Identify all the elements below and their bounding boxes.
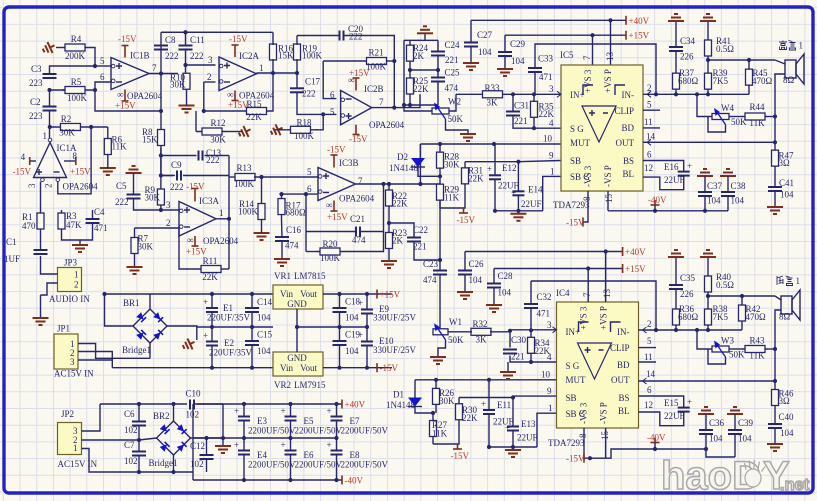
svg-text:VR2: VR2 [274,380,291,390]
svg-text:50K: 50K [729,350,745,360]
svg-text:104: 104 [780,428,794,438]
wire C18 top [339,294,341,308]
wire gnd to C38 [727,176,729,192]
svg-text:12: 12 [644,400,653,410]
wire BR1 top [149,294,151,309]
svg-text:S G: S G [566,361,580,371]
svg-text:2K: 2K [413,51,425,61]
svg-text:+40V: +40V [629,16,650,26]
svg-text:E3: E3 [257,416,267,426]
wire C35 to R36 [675,289,677,304]
resistor R24 [407,40,429,66]
svg-text:8: 8 [578,433,588,438]
svg-text:SB: SB [570,156,581,166]
svg-text:IC2B: IC2B [364,84,384,94]
junction [304,192,308,196]
resistor R15 [246,99,266,122]
svg-text:222: 222 [115,197,129,207]
svg-text:30K: 30K [439,396,455,406]
svg-text:2K: 2K [392,236,404,246]
svg-text:9: 9 [549,151,554,161]
wire VR2 out [323,367,392,369]
junction [706,92,710,96]
wire W2 wiper to ground [446,119,469,134]
wire -40V stem IC4 [654,443,656,450]
svg-text:2: 2 [647,319,652,329]
wire R5 to IC1B - [88,82,111,90]
ground above C34 [668,14,684,26]
wire R6 to ground [107,166,109,168]
capacitor C38 [721,181,746,206]
power flag -15V (IC4 standby) [451,444,470,461]
pin 3 IC3A [166,200,171,210]
capacitor C34 [669,36,696,62]
junction [436,68,440,72]
ground big mid [460,134,476,141]
svg-text:R5: R5 [71,77,82,87]
resistor R10 [170,73,190,90]
svg-text:+: + [358,298,363,308]
wire to R8 [160,111,162,127]
pin 6 IC2B [330,90,335,100]
svg-text:C41: C41 [779,178,794,188]
svg-text:14: 14 [646,369,656,379]
svg-text:22K: 22K [392,199,408,209]
junction [532,92,536,96]
junction [227,217,231,221]
pin 10 IC4 [541,370,551,380]
wire R3 to ground [62,232,81,245]
wire C7 bottom [138,456,140,473]
svg-text:+15V: +15V [380,290,401,300]
svg-text:AUDIO IN: AUDIO IN [49,294,90,304]
IC IC4 TDA7293 [557,302,639,428]
svg-text:100K: 100K [320,253,341,263]
wire to speaker + bottom [775,296,781,300]
svg-text:6: 6 [100,72,105,82]
wire W1 to R32 [448,331,472,333]
svg-text:22UF: 22UF [521,199,542,209]
wire C12 bottom [206,459,208,472]
svg-text:330UF/25V: 330UF/25V [373,345,417,355]
wire join pins [590,457,606,459]
wire -rail to VR2 [112,367,273,369]
capacitor C13 [199,148,222,165]
svg-text:C27: C27 [477,30,493,40]
wire C29 top [504,35,506,52]
svg-text:1: 1 [550,167,555,177]
wire C33 bottom [534,72,536,94]
power flag -40V bank [342,476,363,486]
minus sign IC2A [224,81,230,83]
wire to C17 [296,73,298,88]
svg-text:TDA7293: TDA7293 [548,438,585,448]
svg-text:E7: E7 [350,416,360,426]
connector JP2 [58,409,98,469]
pin 5 IC2B [330,107,335,117]
ground above C38 [720,169,736,176]
pin 2 IC2A [207,72,212,82]
capacitor C25 [431,68,460,94]
svg-text:R33: R33 [484,83,500,93]
potentiometer W3 [712,336,745,360]
svg-text:3Ω: 3Ω [779,158,791,168]
wire C12 top [206,438,208,455]
plus sign IC1B [116,63,122,69]
resistor R18 [283,118,318,142]
svg-text:2: 2 [166,218,171,228]
svg-text:222: 222 [170,182,184,192]
wire C38 down [727,196,729,211]
svg-text:30K: 30K [59,128,75,138]
wire IC3B output right [356,183,421,185]
resistor R19 [294,44,323,61]
junction [704,447,708,451]
wire pin 5 CLIP stub [643,109,660,111]
ground (earth) at R4 [41,40,57,56]
svg-text:C11: C11 [190,35,205,45]
wire C15 bottom [251,345,253,368]
junction [773,347,777,351]
resistor R11 [201,256,221,282]
capacitor C30 [503,335,527,362]
svg-text:1: 1 [43,131,48,141]
wire MUT to E11 [488,380,490,410]
svg-text:BL: BL [622,169,634,179]
svg-text:474: 474 [423,275,437,285]
svg-text:1: 1 [259,63,264,73]
wire E1 bottom [211,312,213,327]
svg-text:-15V: -15V [186,182,205,192]
svg-text:Vin: Vin [280,289,293,299]
resistor R46 [772,381,795,414]
wire C36 down [705,434,707,449]
power flag +15V PSU [377,290,401,300]
resistor R13 [234,163,255,189]
junction [159,109,163,113]
bridge rectifier BR1 [122,298,167,355]
capacitor C32 [524,292,552,319]
wire C7 top [138,440,140,452]
resistor R36 [673,304,699,330]
wire R17 to C16 [281,219,284,237]
resistor R3 [58,210,82,232]
wire C32 top [530,281,532,304]
svg-text:+: + [327,406,332,416]
pin 3 IC4 [547,320,552,330]
junction [210,325,214,329]
svg-text:10: 10 [541,370,551,380]
junction [532,126,536,130]
junction [183,30,187,34]
electrolytic capacitor E14 [511,185,543,210]
minus sign IC3A [184,226,190,228]
IC IC5 TDA7293 [561,65,643,191]
svg-text:3: 3 [208,55,213,65]
wire E14 down [517,195,519,211]
wire +40V to pin 13 IC4 [605,252,607,303]
svg-text:22K: 22K [246,112,262,122]
ground AC top [417,26,433,40]
pin 2 IC4 [647,319,652,329]
wire E9 top [366,294,368,310]
svg-text:OPA2604: OPA2604 [127,91,163,101]
svg-text:3: 3 [547,320,552,330]
wire E7 bottom [336,421,338,439]
wire C6 top [138,404,140,422]
wire MUT to E12 [494,144,496,175]
svg-text:C14: C14 [257,297,273,307]
junction [337,292,341,296]
svg-text:AC15V IN: AC15V IN [54,369,94,379]
ground at R14 [254,233,270,240]
svg-text:IC5: IC5 [560,50,574,60]
potentiometer W4 [712,103,747,127]
connector JP1 [54,324,94,379]
svg-text:470: 470 [22,221,36,231]
svg-text:-VS P: -VS P [603,165,613,187]
pin 14 IC5 [646,132,656,142]
power flag +40V IC4 [623,247,646,257]
junction [288,478,292,482]
wire pin 11 BD stub IC4 [639,361,657,363]
ground (earth) at R12 [237,124,253,140]
op-amp IC3A [179,196,239,246]
pin 8 mark [227,90,233,100]
wire W4 to R44 [729,116,742,118]
wire C23 to W1 [439,275,441,332]
svg-text:30K: 30K [210,135,226,145]
resistor R22 [386,184,409,212]
plus sign IC3A [184,207,190,213]
capacitor C35 [669,273,696,299]
wire W4 wiper loop [708,117,726,133]
svg-text:3: 3 [549,84,554,94]
wire C21 right [360,231,384,233]
wire R20 left [306,251,316,253]
ground above C36 [698,407,714,414]
wire E2 top [211,327,213,342]
wire R20 right up [344,184,384,252]
svg-text:E4: E4 [257,450,267,460]
junction [102,292,106,296]
svg-text:LM7815: LM7815 [294,271,326,281]
connector JP3 [49,258,90,305]
op-amp IC1A [34,138,99,191]
svg-text:13: 13 [605,52,615,62]
svg-text:C4: C4 [94,207,105,217]
junction [365,292,369,296]
resistor R1 [22,210,44,232]
junction [210,366,214,370]
electrolytic capacitor E1 [203,297,251,323]
wire output node bottom [708,295,775,297]
svg-text:11: 11 [644,117,653,127]
svg-text:∞: ∞ [227,90,233,100]
svg-text:R15: R15 [246,99,262,109]
wire C9 left [161,175,175,177]
electrolytic capacitor E13 [505,419,538,443]
wire E15 to BL [639,412,684,426]
pin 1 IC2A [259,63,264,73]
svg-text:+40V: +40V [345,400,366,410]
resistor R41 [705,36,735,60]
wire C1 to R1 [40,232,42,250]
svg-text:2200UF/50V: 2200UF/50V [341,426,389,436]
svg-text:+15V: +15V [327,212,348,222]
pin 8 mark [117,90,123,100]
wire R10 to ground [186,89,188,106]
speaker bottom channel (&#20302;&#38899;1) [777,276,800,322]
svg-text:C12: C12 [190,441,205,451]
capacitor C28 [487,271,513,298]
wire gnd to C5 [133,173,135,194]
svg-text:R20: R20 [322,239,338,249]
svg-text:+15V: +15V [186,247,207,257]
junction [210,292,214,296]
svg-text:470Ω: 470Ω [752,76,773,86]
wire R7 to ground [134,257,136,267]
pin 3 IC2A [208,55,213,65]
wire to D1 hm [414,380,416,398]
pin 6 IC5 [647,150,652,160]
svg-text:Bridge1: Bridge1 [122,345,151,355]
svg-text:11K: 11K [432,429,448,439]
pin 5 IC5 [647,100,652,110]
svg-text:GND: GND [287,299,307,309]
resistor R12 [196,118,228,145]
svg-text:+: + [687,161,692,171]
junction [492,142,496,146]
svg-text:LM7915: LM7915 [294,380,326,390]
wire R19 bottom [296,59,298,73]
wire R29 to +15V [440,207,464,209]
ground at C30 R34 [500,372,516,379]
svg-text:104: 104 [469,275,483,285]
wire R17 to IC3B - [282,193,319,195]
junction [334,436,338,440]
wire R23 to ground [388,252,390,261]
wire R23 top to C22 [389,223,414,238]
svg-text:221: 221 [445,55,459,65]
power -15V IC2B bottom [349,125,368,144]
capacitor C4 [86,207,108,233]
wire to D2 [419,144,421,158]
svg-text:C35: C35 [680,273,696,283]
wire -40V stem [654,205,656,211]
svg-text:-VS P: -VS P [599,402,609,424]
svg-text:R2: R2 [61,114,72,124]
resistor R8 [142,127,165,148]
diode D1 label [386,390,415,411]
resistor R21 [365,48,388,72]
wire C27 bottom [470,47,472,64]
svg-text:C1: C1 [6,237,17,247]
wire gnd to R41 [707,26,709,36]
svg-text:50K: 50K [448,335,464,345]
power +15V IC2A bottom [228,91,249,111]
resistor R37 [673,68,699,94]
pin arrow [557,91,561,97]
wire C2 C3 junction to R5 [50,90,69,106]
junction [387,182,391,186]
svg-text:7: 7 [582,292,592,297]
svg-text:474: 474 [285,241,299,251]
resistor R30 [456,398,479,427]
svg-text:+40V: +40V [625,247,646,257]
pin 11 IC5 [644,117,653,127]
svg-text:E11: E11 [497,400,511,410]
svg-text:102: 102 [186,410,200,420]
wire E6 bottom [290,455,292,481]
svg-text:471: 471 [537,309,551,319]
potentiometer W1 [433,317,464,345]
label TDA7293 IC4 [548,438,585,448]
svg-text:Vin: Vin [280,363,293,373]
svg-text:R18: R18 [296,118,312,128]
svg-text:2200UF/50V: 2200UF/50V [248,426,296,436]
wire C9 right [183,175,229,177]
wire IC1B feedback [95,90,161,111]
wire R24 to R25 [409,66,411,73]
pin 7 IC4 top [582,292,592,297]
op-amp IC2A [219,51,275,101]
wire +40V to pin 13 [610,20,612,65]
svg-text:E16: E16 [664,162,679,172]
junction [695,328,699,332]
capacitor C2 [29,97,57,121]
svg-text:471: 471 [94,223,108,233]
svg-text:104: 104 [498,288,512,298]
junction [392,106,396,110]
junction [271,71,275,75]
pin 1 IC1A [43,131,48,141]
svg-text:100K: 100K [238,207,259,217]
svg-text:223: 223 [29,78,43,88]
wire feedback branch vertical [305,194,307,251]
pin 2 IC1A [44,184,54,189]
wire AC top rail [100,403,187,405]
wire W2 to R33 [456,93,481,95]
svg-text:IC3A: IC3A [199,196,220,206]
junction [387,221,391,225]
svg-text:221: 221 [511,352,525,362]
wire JP3 pin1 to C1 [41,256,58,274]
wire bottom node rail [404,104,438,106]
junction [334,402,338,406]
wire R41 to R39 [707,60,709,68]
svg-text:+: + [687,397,692,407]
wire R15 to output node [266,73,273,111]
wire -40V rail IC5 [608,210,728,212]
wire C19 bottom [339,345,341,368]
svg-text:-40V: -40V [648,195,667,205]
pin 3 IC1A [27,183,37,188]
svg-text:IC2A: IC2A [239,51,260,61]
svg-text:C32: C32 [537,292,552,302]
svg-text:+: + [487,164,492,174]
capacitor C41 [768,178,794,200]
svg-text:C22: C22 [413,225,428,235]
capacitor C6 [124,409,146,435]
wire IN- to W3 [697,330,712,349]
svg-text:+VS 3: +VS 3 [583,69,593,93]
svg-text:220UF/35V: 220UF/35V [207,313,251,323]
svg-text:C25: C25 [445,68,461,78]
svg-text:22K: 22K [462,413,478,423]
pin arrow [643,378,647,384]
junction [773,379,777,383]
